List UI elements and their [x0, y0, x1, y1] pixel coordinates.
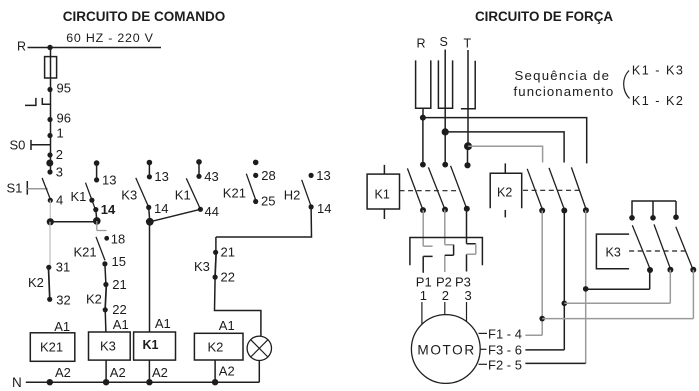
wire 22 to lamp	[215, 277, 261, 336]
wire tick above 13	[96, 163, 98, 180]
svg-text:15: 15	[112, 254, 126, 269]
svg-text:A2: A2	[110, 365, 126, 380]
junction pole1/F1	[539, 316, 545, 322]
thermal overload contact FT1 hooks	[25, 98, 51, 106]
svg-text:S: S	[440, 35, 448, 49]
svg-text:A2: A2	[55, 365, 71, 380]
wire H2 14 down and left	[216, 207, 312, 237]
svg-text:A1: A1	[219, 318, 235, 333]
contact K3 13-14 arm	[136, 178, 149, 207]
svg-text:K1 - K3: K1 - K3	[632, 63, 685, 77]
svg-text:F3 - 6: F3 - 6	[488, 343, 522, 358]
wire 44 to center junction	[150, 209, 201, 222]
wire 14 to junction	[96, 210, 97, 221]
svg-text:4: 4	[56, 192, 63, 207]
node 95	[47, 87, 52, 92]
node 2	[47, 152, 52, 157]
wire 96 to 1	[50, 120, 52, 136]
svg-text:A1: A1	[113, 317, 129, 332]
wire K2 pole2 column	[563, 211, 565, 350]
contactor K3 box	[596, 234, 629, 269]
K1 pole3 top node	[464, 162, 470, 168]
K1 box stubs	[383, 165, 385, 219]
wire step to contact K21	[97, 221, 107, 231]
node 3	[47, 169, 52, 174]
node 31	[46, 265, 51, 270]
K3 pole3 top node	[673, 214, 679, 220]
svg-text:14: 14	[317, 201, 331, 216]
wire K1 pole1 stub	[422, 118, 424, 165]
center junction node	[146, 218, 154, 226]
svg-text:K3: K3	[606, 246, 621, 260]
lamp H1	[247, 336, 271, 360]
contact K3 21-22 arm	[215, 254, 216, 277]
wire K3 pole2 drop (gray)	[669, 270, 671, 304]
K3 mechanical link dashed	[629, 250, 685, 252]
contact K1 pole3 arm	[451, 166, 467, 209]
node 18	[104, 236, 109, 241]
svg-text:S0: S0	[10, 138, 26, 153]
svg-text:95: 95	[57, 81, 71, 96]
wire 2 to 3	[50, 155, 52, 172]
svg-text:28: 28	[261, 168, 275, 183]
svg-text:2: 2	[56, 147, 63, 162]
coil K1 box	[134, 332, 176, 360]
svg-text:22: 22	[112, 302, 126, 317]
wire R phase line	[28, 47, 162, 49]
wire F3 to motor	[525, 349, 564, 351]
junction on R line	[47, 45, 52, 50]
svg-text:21: 21	[112, 277, 126, 292]
coil K21 box	[30, 333, 75, 362]
contact K1 pole2 arm	[428, 167, 445, 209]
svg-text:A1: A1	[155, 316, 171, 331]
brace	[624, 71, 630, 99]
contact K3 pole3 arm	[676, 227, 693, 270]
terminal U1 (R)	[416, 60, 431, 108]
wire R stub	[422, 108, 424, 117]
K1 pole1 top node	[420, 162, 426, 168]
motor terminal tick F1	[479, 332, 488, 334]
wire link F2 row to K3 pole1	[586, 288, 650, 290]
svg-text:K3: K3	[100, 338, 116, 353]
wire S feed line	[445, 132, 564, 163]
svg-text:43: 43	[204, 169, 218, 184]
K1 pole2 top node	[442, 162, 448, 168]
junction on N below K1	[146, 379, 152, 385]
junction on N below K3	[103, 379, 109, 385]
wire tick above 13 (K3)	[148, 163, 150, 177]
svg-text:31: 31	[56, 259, 70, 274]
svg-text:F2 - 5: F2 - 5	[488, 358, 522, 373]
svg-text:MOTOR: MOTOR	[417, 343, 475, 358]
junction node under S1	[47, 218, 54, 225]
wire S drop	[444, 50, 446, 132]
svg-text:32: 32	[56, 292, 70, 307]
K3 pole2 bottom node	[667, 267, 673, 273]
pushbutton S0 contact 1-2	[50, 136, 52, 156]
svg-text:60 HZ - 220 V: 60 HZ - 220 V	[66, 31, 154, 45]
contact K1 pole1 arm	[407, 168, 423, 210]
branch K1b top feed dot	[196, 159, 202, 165]
K2 box stub up	[504, 163, 506, 173]
svg-text:44: 44	[205, 204, 219, 219]
wire pole1 to overload (gray)	[422, 210, 424, 246]
contact H2 13-14 arm	[302, 180, 311, 207]
motor lead 2	[444, 302, 446, 315]
K3 pole1 top node	[629, 215, 635, 221]
pushbutton S1 contact 3-4	[42, 178, 51, 200]
K2 pole2 bottom node	[561, 208, 567, 214]
svg-text:N: N	[12, 375, 22, 390]
svg-text:F1 - 4: F1 - 4	[488, 327, 522, 342]
node 21	[103, 282, 108, 287]
wire lamp to N	[258, 361, 260, 383]
branch K21 top feed dot	[253, 160, 259, 166]
wire fuse drop	[50, 48, 52, 90]
wire 95 to 96	[50, 90, 52, 120]
wire F1 to motor (gray)	[525, 334, 542, 336]
K1 mechanical link dashed	[400, 190, 460, 192]
svg-text:21: 21	[221, 245, 235, 260]
heater element 3	[467, 244, 476, 272]
svg-text:Sequência de: Sequência de	[515, 68, 611, 83]
node 44	[198, 207, 203, 212]
svg-text:K1: K1	[143, 338, 159, 352]
svg-text:K21: K21	[74, 245, 97, 260]
node 14 (K3)	[146, 205, 151, 210]
junction T feed	[464, 142, 472, 150]
wire pole3 to overload	[466, 209, 468, 244]
pushbutton S1 actuator	[26, 181, 28, 195]
junction S feed	[442, 128, 449, 135]
K3 pole2 top node	[650, 215, 656, 221]
svg-text:13: 13	[316, 168, 330, 183]
wire 22 to coil K3	[104, 310, 107, 332]
node 25	[253, 199, 258, 204]
svg-text:18: 18	[111, 231, 125, 246]
svg-text:13: 13	[102, 172, 116, 187]
wire K2 pole1 column (gray)	[541, 211, 543, 336]
junction R feed	[420, 115, 426, 121]
svg-text:CIRCUITO DE FORÇA: CIRCUITO DE FORÇA	[475, 9, 613, 24]
contactor K1 box	[367, 174, 399, 209]
svg-text:25: 25	[261, 194, 275, 209]
wire tick above 43	[198, 162, 200, 176]
terminal U2 (S)	[438, 60, 452, 108]
contact K21 15-18 arm	[96, 237, 105, 261]
wire pole2 to overload (gray)	[444, 210, 446, 245]
contactor K2 box	[490, 173, 522, 208]
svg-text:K21: K21	[223, 186, 246, 201]
svg-text:1: 1	[420, 288, 427, 303]
node 13 (H2)	[309, 173, 314, 178]
node 96	[47, 117, 52, 122]
overload relay FT1 bracket	[410, 238, 483, 266]
svg-text:1: 1	[57, 126, 64, 141]
coil K2 box	[194, 333, 243, 360]
heater element 1	[423, 245, 432, 247]
wire coil K2 to N	[214, 360, 216, 382]
contact K1 13-14 arm	[86, 183, 96, 211]
wire N rail	[26, 381, 259, 383]
svg-text:A1: A1	[54, 319, 70, 334]
node 1	[47, 133, 52, 138]
wire K1 pole3 stub	[467, 146, 469, 166]
pushbutton S0 actuator	[31, 140, 50, 150]
svg-text:K1 - K2: K1 - K2	[632, 94, 685, 108]
motor lead 1	[421, 302, 423, 325]
svg-text:K1: K1	[375, 187, 390, 201]
node 22 (K3 aux)	[213, 275, 218, 280]
wire coil K1 to N	[148, 360, 150, 382]
svg-text:H2: H2	[284, 188, 301, 203]
wire link F3 row to K3 pole2 (gray)	[564, 302, 670, 304]
wire down to K2 NC contact	[49, 222, 51, 267]
svg-text:K3: K3	[121, 188, 137, 203]
contact K3 pole2 arm	[654, 224, 670, 268]
K2 box tick below	[504, 210, 506, 217]
svg-text:13: 13	[154, 169, 168, 184]
svg-text:3: 3	[56, 164, 63, 179]
contact K21 28-25 arm	[246, 174, 255, 200]
K2 pole3 bottom node	[583, 207, 589, 213]
contact K3 pole1 arm	[632, 225, 650, 269]
branch K3 top feed dot	[147, 160, 153, 166]
wire center junction to coil K1	[149, 222, 151, 332]
coil K3 box	[89, 332, 131, 360]
svg-text:22: 22	[221, 270, 235, 285]
node 32	[47, 297, 52, 302]
K3 feed bus	[631, 201, 676, 218]
K2 pole1 bottom node	[539, 208, 545, 214]
junction dot between 2 and 3	[46, 160, 53, 167]
svg-text:K1: K1	[175, 188, 191, 203]
K1 pole3 bottom node	[464, 206, 470, 212]
node 4	[48, 198, 53, 203]
wire K1 pole2 stub	[444, 132, 446, 165]
contact K2 pole3 arm	[571, 167, 586, 209]
wire K3 pole3 drop (gray)	[692, 270, 694, 319]
wire T feed line (gray)	[468, 146, 543, 162]
svg-text:K2: K2	[497, 186, 512, 200]
contact K2 pole1 arm	[527, 169, 542, 210]
wire 4 down to rail junction	[49, 200, 51, 222]
wire K3 pole1 drop	[649, 270, 651, 289]
junction node under K1a	[93, 217, 101, 225]
node 15	[102, 261, 107, 266]
svg-text:K2: K2	[208, 339, 224, 354]
wire link F1 row to K3 pole3 (gray)	[542, 318, 693, 320]
motor terminal tick F2	[479, 363, 488, 365]
svg-text:K3: K3	[194, 259, 210, 274]
svg-text:S1: S1	[7, 181, 23, 196]
K2 mechanical link dashed	[523, 189, 580, 191]
junction pole3/F2	[583, 286, 589, 292]
node 14 (K1a)	[93, 207, 98, 212]
svg-text:CIRCUITO DE COMANDO: CIRCUITO DE COMANDO	[63, 9, 226, 24]
svg-text:R: R	[417, 37, 426, 51]
K3 pole3 bottom node	[690, 267, 696, 273]
svg-text:2: 2	[442, 288, 449, 303]
node 21 (K3 aux)	[213, 250, 218, 255]
dot on K1 arm	[89, 198, 94, 203]
motor lead 3	[466, 302, 468, 323]
node 43	[196, 174, 201, 179]
node 22	[103, 307, 108, 312]
motor terminal tick F3	[481, 348, 487, 350]
wire down to 21 (K3)	[215, 237, 217, 252]
svg-text:96: 96	[57, 111, 71, 126]
contact K2 21-22 arm	[105, 286, 106, 308]
svg-text:K2: K2	[86, 291, 102, 306]
svg-text:3: 3	[465, 288, 472, 303]
heater element 2	[445, 245, 454, 272]
svg-text:K1: K1	[71, 189, 87, 204]
svg-text:K2: K2	[28, 275, 44, 290]
K1 pole1 bottom node	[420, 207, 426, 213]
svg-text:funcionamento: funcionamento	[514, 84, 615, 99]
svg-text:14: 14	[101, 202, 116, 217]
contact K2 31-32 arm	[49, 269, 50, 298]
terminal U3 (T)	[461, 61, 475, 109]
svg-text:R: R	[17, 40, 26, 54]
wire junction to K1a branch	[50, 221, 97, 223]
K1 pole2 bottom node	[442, 207, 448, 213]
svg-text:14: 14	[154, 201, 168, 216]
wire T drop	[467, 50, 469, 146]
contact K1 43-44 arm	[186, 178, 200, 209]
K3 pole1 bottom node	[647, 267, 653, 273]
fuse F1	[45, 57, 57, 78]
node 14 (H2)	[309, 204, 314, 209]
wire R feed line	[423, 118, 587, 164]
wire F2 to motor	[525, 362, 585, 364]
node 13 (K1a)	[94, 177, 99, 182]
junction on N below K21	[47, 379, 53, 385]
junction on N below K2	[212, 379, 218, 385]
node 13 (K3)	[147, 174, 152, 179]
wire K2 pole3 column (gray)	[585, 210, 587, 363]
wire coil K3 to N	[105, 360, 107, 382]
junction pole2/F3	[562, 301, 568, 307]
node 28	[253, 173, 258, 178]
svg-text:A2: A2	[219, 364, 235, 379]
contact K2 pole2 arm	[549, 168, 564, 210]
branch K1a top feed dot	[94, 160, 100, 166]
svg-text:K21: K21	[40, 339, 63, 354]
motor M1	[411, 315, 480, 384]
svg-text:A2: A2	[152, 365, 168, 380]
wire 15 to 21	[105, 264, 106, 285]
svg-text:T: T	[464, 37, 472, 51]
wire 14 to center junction	[149, 207, 150, 221]
